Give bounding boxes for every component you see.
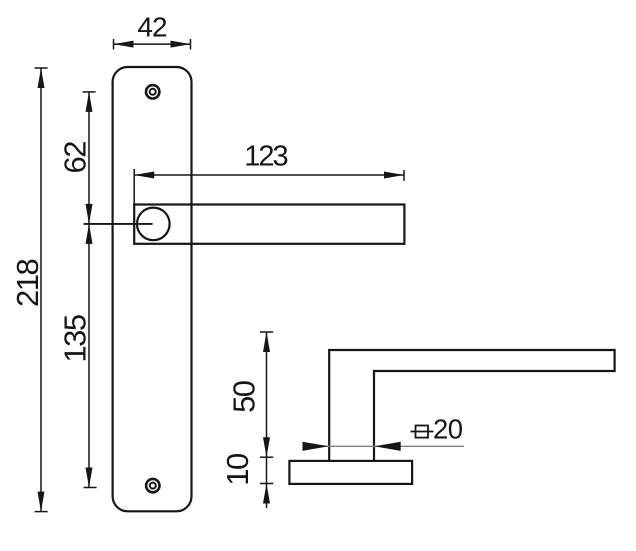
dimension 218 line bbox=[35, 68, 48, 512]
screw hole top inner bbox=[150, 89, 156, 95]
centerline of hub bbox=[84, 223, 153, 225]
svg-text:62: 62 bbox=[58, 142, 93, 174]
dimension 123 extension line bbox=[133, 169, 135, 205]
svg-text:50: 50 bbox=[227, 380, 262, 413]
dimension 123 line bbox=[134, 170, 404, 181]
backplate outline bbox=[113, 67, 192, 511]
dimension 135 line bbox=[84, 224, 97, 488]
dimension 42 line bbox=[114, 39, 191, 49]
lever bar front view bbox=[134, 205, 404, 244]
screw hole bottom outer bbox=[146, 479, 159, 492]
dimension 123 arrow right bbox=[384, 172, 404, 179]
dimension 20 leader line bbox=[303, 445, 464, 447]
dimension 20 arrow left bbox=[303, 442, 329, 451]
dimension 50 line bbox=[260, 332, 273, 508]
dimension 135 arrow top bbox=[86, 224, 93, 244]
dimension 62 line bbox=[83, 92, 96, 224]
screw hole top outer bbox=[146, 85, 159, 98]
handle side profile bbox=[329, 350, 614, 461]
rosette side view bbox=[289, 461, 412, 484]
svg-text:123: 123 bbox=[244, 141, 287, 173]
dimension 42 arrow left bbox=[114, 41, 134, 48]
svg-text:10: 10 bbox=[220, 453, 255, 486]
screw hole bottom inner bbox=[150, 483, 156, 489]
svg-text:135: 135 bbox=[58, 315, 93, 362]
svg-text:42: 42 bbox=[137, 12, 167, 43]
svg-text:218: 218 bbox=[10, 260, 45, 307]
svg-text:20: 20 bbox=[433, 414, 463, 445]
dimension 42 arrow right bbox=[171, 41, 191, 48]
dimension 62 arrow bottom bbox=[86, 204, 93, 224]
lever hub circle bbox=[137, 208, 170, 241]
dimension 135 arrow bottom bbox=[86, 468, 93, 488]
dimension 20 arrow right bbox=[374, 442, 400, 451]
square section symbol bbox=[411, 426, 434, 438]
dimension 50 arrow top bbox=[263, 332, 270, 352]
dimension 218 arrow top bbox=[38, 68, 45, 88]
dimension 50 arrow bottom bbox=[263, 437, 270, 457]
dimension 218 arrow bottom bbox=[38, 492, 45, 512]
dimension 123 arrow left bbox=[134, 172, 154, 179]
dimension 10 arrow bottom outside bbox=[263, 484, 270, 504]
dimension 62 arrow top bbox=[86, 92, 93, 112]
